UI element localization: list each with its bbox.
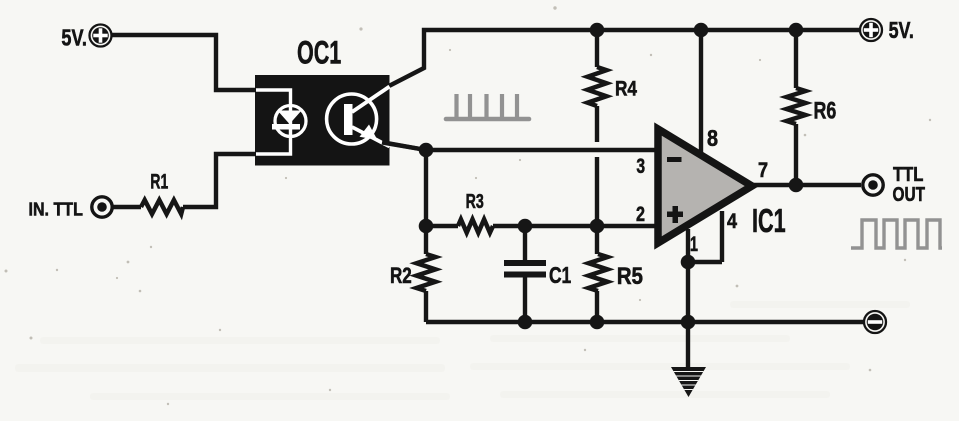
svg-text:C1: C1 (549, 263, 571, 289)
svg-text:R5: R5 (617, 262, 643, 289)
svg-text:5V.: 5V. (889, 18, 914, 44)
svg-text:5V.: 5V. (61, 25, 87, 51)
svg-text:3: 3 (636, 154, 645, 178)
svg-text:7: 7 (758, 159, 768, 183)
svg-text:IN. TTL: IN. TTL (29, 198, 84, 219)
svg-text:R6: R6 (814, 98, 837, 124)
svg-text:R2: R2 (390, 264, 412, 289)
svg-text:IC1: IC1 (752, 201, 786, 239)
svg-text:OC1: OC1 (297, 34, 341, 71)
svg-text:R1: R1 (150, 169, 168, 193)
svg-text:4: 4 (727, 210, 737, 234)
svg-text:R3: R3 (466, 190, 484, 213)
svg-text:OUT: OUT (893, 183, 926, 205)
svg-text:2: 2 (636, 202, 645, 226)
svg-text:8: 8 (707, 126, 718, 152)
svg-text:R4: R4 (615, 78, 637, 101)
svg-text:TTL: TTL (893, 163, 923, 186)
svg-text:1: 1 (690, 232, 698, 255)
